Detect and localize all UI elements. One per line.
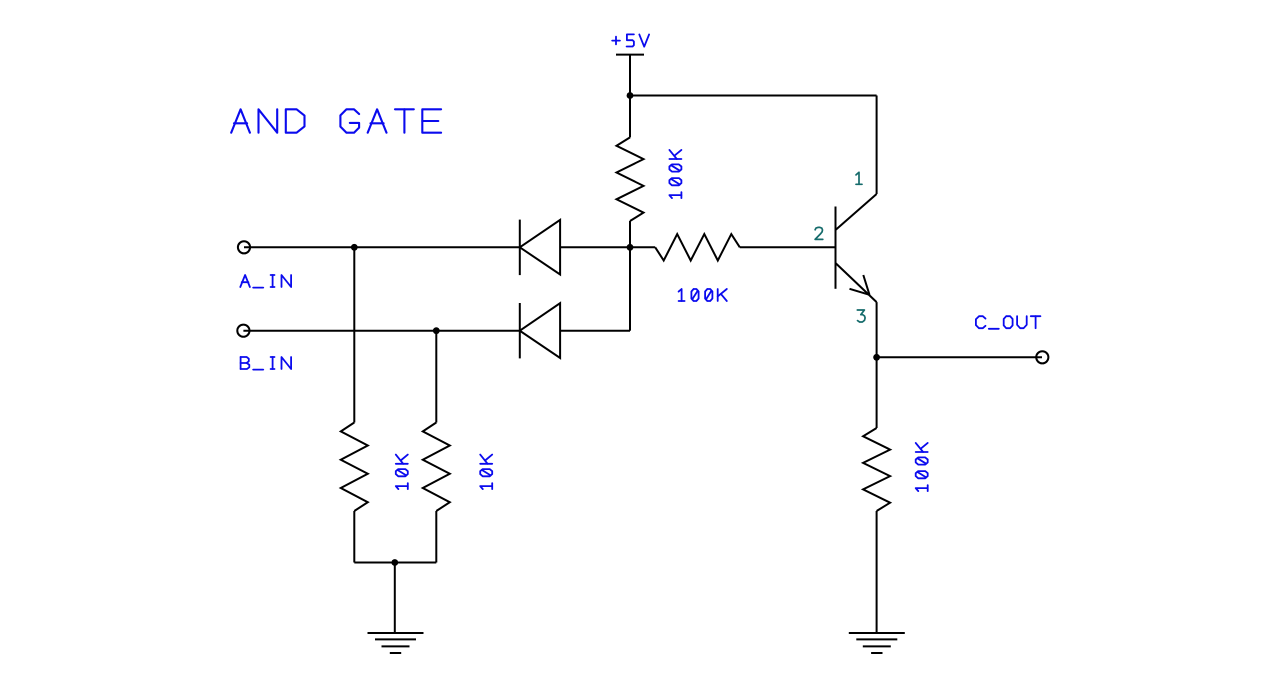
wire A row (244, 246, 520, 248)
wire D2 riser to node (629, 247, 631, 330)
wire collector riser (876, 96, 878, 195)
title AND GATE (231, 109, 441, 132)
resistor R3 100K (863, 428, 890, 511)
wire R1 top lead (629, 96, 631, 138)
junction node VCC (627, 92, 634, 99)
wire +5V stem (629, 55, 631, 96)
wire output (877, 356, 1042, 358)
label R1 100K (669, 150, 681, 198)
junction node K (diode common) (627, 244, 634, 251)
wire ground drop left (394, 563, 396, 634)
wire B row (243, 330, 519, 332)
label R4 10K (396, 455, 408, 490)
diode D2 (520, 303, 560, 358)
terminal B_IN (237, 325, 249, 337)
pin 3 label (emitter) (857, 310, 865, 322)
resistor R4 10K (341, 423, 368, 512)
label R2 100K (679, 289, 727, 301)
label B_IN (241, 357, 292, 370)
resistor R1 100K (617, 137, 644, 221)
power +5V bar (616, 54, 644, 56)
resistor R5 10K (423, 423, 450, 512)
terminal C_OUT (1036, 351, 1048, 363)
ground right (849, 633, 905, 653)
junction emitter node (873, 354, 880, 361)
wire bottom join (354, 562, 436, 564)
wire R4 bottom lead (353, 511, 355, 563)
wire A drop (353, 247, 355, 422)
wire R5 bottom lead (435, 511, 437, 563)
diode D1 (520, 220, 560, 276)
label R5 10K (480, 455, 492, 490)
junction B branch (433, 327, 440, 334)
wire node to R2 (630, 246, 655, 248)
resistor R2 100K (655, 234, 740, 260)
ground left (368, 633, 424, 653)
wire emitter drop (876, 302, 878, 357)
wire D1 anode to node (560, 246, 630, 248)
wire VCC rail (630, 95, 877, 97)
terminal A_IN (238, 241, 250, 253)
pin 1 label (collector) (856, 172, 862, 184)
junction bottom (391, 559, 398, 566)
label R3 100K (916, 443, 928, 491)
wire R3 bottom lead (876, 511, 878, 633)
label A_IN (240, 275, 291, 288)
transistor Q1 NPN (836, 194, 877, 302)
pin 2 label (base) (815, 227, 823, 239)
wire B drop (435, 331, 437, 423)
wire R1 bottom lead (629, 221, 631, 247)
wire R2 to base (740, 246, 836, 248)
power +5V label (612, 34, 649, 46)
label C_OUT (976, 316, 1041, 329)
wire R3 top lead (876, 357, 878, 428)
wire D2 anode (560, 330, 630, 332)
junction A branch (351, 244, 358, 251)
